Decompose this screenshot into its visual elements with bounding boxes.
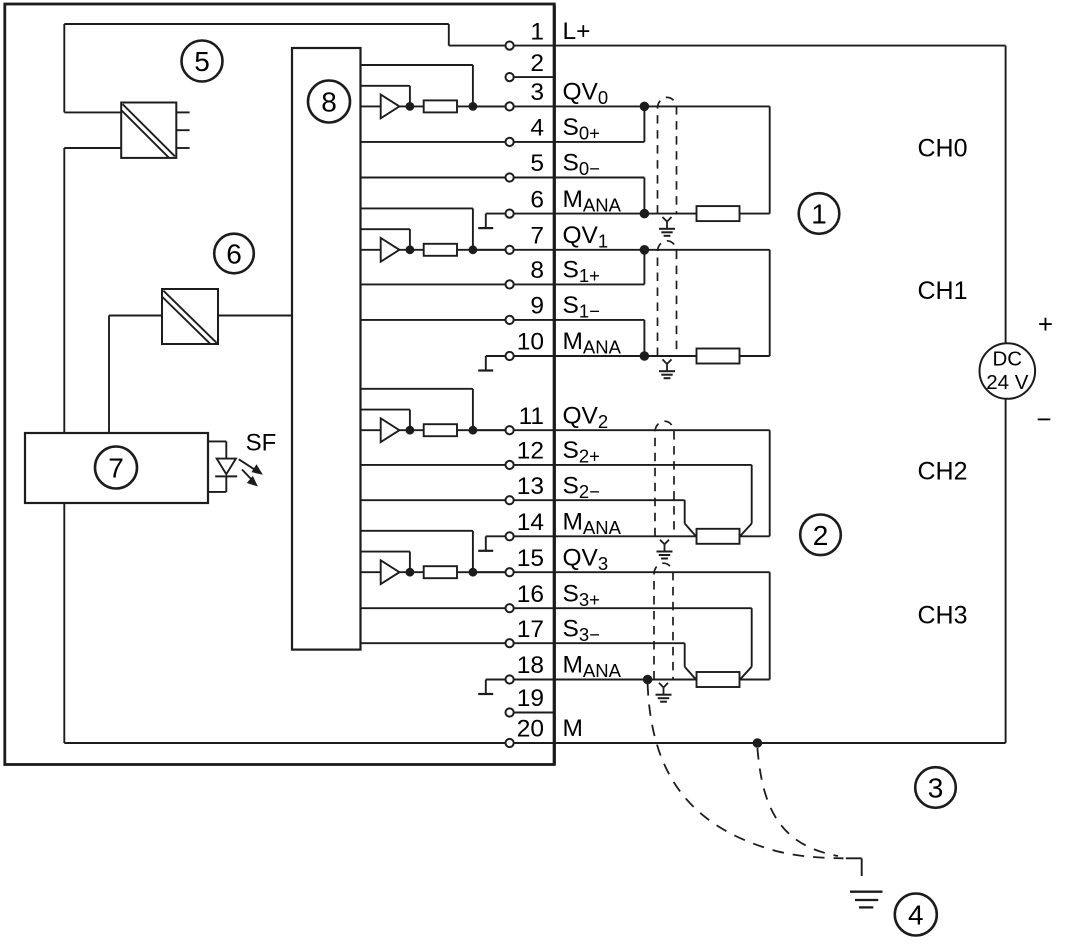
wire op-amp A2 output <box>399 429 423 431</box>
svg-text:6: 6 <box>226 239 242 270</box>
svg-text:5: 5 <box>530 150 544 177</box>
svg-text:DC: DC <box>992 348 1022 371</box>
pin 15 wire <box>473 571 554 573</box>
pin 14 wire <box>486 535 555 537</box>
circled 6 <box>214 234 254 274</box>
svg-text:−: − <box>1036 404 1051 434</box>
resistor R0 (output) <box>424 100 457 112</box>
wire supply + side <box>1005 46 1007 344</box>
svg-text:8: 8 <box>321 87 337 118</box>
node QV2 sense <box>469 426 478 435</box>
terminal circle pin 2 <box>506 73 514 81</box>
wire top rail down to PSU input <box>63 24 65 112</box>
feedback wire A2 <box>361 409 410 411</box>
svg-text:1: 1 <box>811 199 827 230</box>
pin 9 wire <box>361 319 555 321</box>
svg-text:13: 13 <box>517 473 544 500</box>
wire load right side CH0 <box>769 106 771 213</box>
wire down to controller box 7 <box>63 148 65 433</box>
svg-text:16: 16 <box>517 581 544 608</box>
resistor R3 (output) <box>424 566 457 578</box>
svg-text:8: 8 <box>530 257 544 284</box>
pin 17 wire <box>361 642 555 644</box>
cable shield CH2 (dashed) <box>655 421 674 536</box>
wire down to box 7 <box>108 316 110 434</box>
svg-text:12: 12 <box>517 438 544 465</box>
wire MANA to load CH1 <box>554 355 696 357</box>
supply DC 24 V <box>980 343 1036 399</box>
terminal circle pin 5 <box>506 173 514 181</box>
wire QV out CH3 <box>554 571 769 573</box>
load resistor CH0 <box>697 206 740 221</box>
load resistor CH1 <box>697 349 740 364</box>
cable shield CH1 (dashed) <box>658 241 677 356</box>
op-amp A3 (buffer) <box>381 560 400 584</box>
sense wire A3 <box>361 530 473 532</box>
wire S- sense CH2 <box>554 499 684 501</box>
node QV1 sense <box>469 245 478 254</box>
load resistor CH3 <box>697 672 740 687</box>
PSU output pin 2 <box>176 129 189 131</box>
ground tick pin 14 <box>485 536 487 551</box>
circled 3 <box>915 767 956 808</box>
node shield CH3 <box>643 675 653 685</box>
wire sense ext pin 8 <box>554 283 644 285</box>
wire S+ tie CH1 <box>643 250 645 285</box>
wire load to right side CH1 <box>740 355 770 357</box>
circled 7 <box>95 447 137 489</box>
node S+ tie CH1 <box>640 245 650 255</box>
node M rail <box>753 738 763 748</box>
wire S- tie CH1 <box>643 320 645 356</box>
LED diode D1 (SF) <box>217 459 236 475</box>
node amp3 output <box>406 568 415 577</box>
cable shield CH0 (dashed) <box>658 97 677 213</box>
shield earth CH2 <box>660 540 665 545</box>
wire MANA to load CH2 <box>554 535 696 537</box>
svg-text:2: 2 <box>530 50 544 77</box>
terminal circle pin 4 <box>506 138 514 146</box>
svg-text:9: 9 <box>530 293 544 320</box>
terminal circle pin 3 <box>506 102 514 110</box>
svg-text:L+: L+ <box>563 18 591 45</box>
svg-text:4: 4 <box>908 900 924 931</box>
svg-text:15: 15 <box>517 545 544 572</box>
terminal circle pin 14 <box>506 532 514 540</box>
op-amp A0 input wire <box>361 105 381 107</box>
pin 1 wire <box>449 45 555 47</box>
node amp1 output <box>406 245 415 254</box>
feedback wire A0 <box>361 85 410 87</box>
wire L+ top rail <box>64 23 449 25</box>
LED light arrow 1 <box>239 459 257 470</box>
feedback wire A3 <box>361 551 410 553</box>
terminal circle pin 13 <box>506 496 514 504</box>
op-amp A2 (buffer) <box>381 418 400 442</box>
terminal circle pin 6 <box>506 210 514 218</box>
terminal circle pin 7 <box>506 246 514 254</box>
node QV0 sense <box>469 102 478 111</box>
pin 2 wire <box>510 76 555 78</box>
node S+ tie CH0 <box>640 102 650 112</box>
wire S+ sense CH3 <box>554 607 751 609</box>
circled 8 <box>308 81 350 123</box>
svg-text:14: 14 <box>517 509 544 536</box>
terminal circle pin 12 <box>506 461 514 469</box>
wire sense ext pin 5 <box>554 177 644 179</box>
sense wire A2 <box>361 388 473 390</box>
resistor R2 (output) <box>424 424 457 436</box>
pin 4 wire <box>361 141 555 143</box>
LED anode lead <box>208 440 226 442</box>
pin 3 wire <box>473 105 554 107</box>
terminal circle pin 10 <box>506 352 514 360</box>
op-amp A2 input wire <box>361 429 381 431</box>
svg-text:5: 5 <box>194 46 210 77</box>
pin 7 wire <box>473 249 554 251</box>
svg-text:7: 7 <box>530 223 544 250</box>
wire load to right side CH0 <box>740 213 770 215</box>
shield earth CH1 <box>663 359 668 364</box>
wire MANA to load CH0 <box>554 213 696 215</box>
circled 2 <box>800 515 841 556</box>
wire supply - side <box>1005 399 1007 743</box>
wire right side to load CH2 <box>740 535 770 537</box>
svg-text:CH1: CH1 <box>918 277 968 305</box>
svg-text:19: 19 <box>517 685 544 712</box>
svg-text:24 V: 24 V <box>986 371 1028 394</box>
node S- tie CH1 <box>640 351 650 361</box>
node S- tie CH0 <box>640 209 650 219</box>
terminal circle pin 1 <box>506 42 514 50</box>
pin 16 wire <box>361 607 555 609</box>
terminal circle pin 20 <box>506 739 514 747</box>
wire MANA to load CH3 <box>554 679 696 681</box>
svg-text:4: 4 <box>530 115 544 142</box>
wire QV out CH1 <box>554 249 769 251</box>
terminal circle pin 17 <box>506 639 514 647</box>
wire QV out CH2 <box>554 429 769 431</box>
wire op-amp A3 output <box>399 571 423 573</box>
op-amp A0 (buffer) <box>381 95 400 119</box>
svg-text:CH0: CH0 <box>918 135 968 163</box>
wire L+ to supply <box>554 45 1005 47</box>
ground (4) lead <box>846 857 862 859</box>
svg-text:20: 20 <box>517 716 544 743</box>
power supply box (5) <box>121 103 176 158</box>
pin 5 wire <box>361 177 555 179</box>
terminal circle pin 18 <box>506 675 514 683</box>
svg-text:M: M <box>563 715 583 742</box>
svg-text:3: 3 <box>530 79 544 106</box>
svg-text:7: 7 <box>108 453 124 484</box>
isolation barrier box (6) <box>162 289 218 344</box>
wire S- tie CH0 <box>643 178 645 214</box>
load resistor CH2 <box>697 529 740 544</box>
wire QV out CH0 <box>554 105 769 107</box>
terminal circle pin 16 <box>506 604 514 612</box>
dashed bonding wire from CH3 shield <box>648 684 844 858</box>
wire resistor R3 to terminal <box>457 571 510 573</box>
pin 20 wire <box>64 742 1005 744</box>
circled 4 <box>895 894 937 936</box>
svg-text:18: 18 <box>517 652 544 679</box>
circled 1 <box>799 193 840 234</box>
wire resistor R2 to terminal <box>457 429 510 431</box>
svg-text:1: 1 <box>530 18 544 45</box>
terminal circle pin 11 <box>506 426 514 434</box>
svg-text:+: + <box>1038 309 1053 339</box>
wire top rail down to pin 1 <box>448 24 450 46</box>
output driver block (8) <box>292 48 361 650</box>
cable shield CH3 (dashed) <box>654 563 673 679</box>
pin 6 wire <box>486 213 555 215</box>
wire S+ sense CH2 <box>554 464 751 466</box>
wire load right side CH3 <box>769 572 771 679</box>
svg-text:SF: SF <box>246 430 277 457</box>
LED light arrow 2 <box>242 470 253 481</box>
ground tick pin 10 <box>485 356 487 371</box>
controller box (7) <box>25 433 208 503</box>
ground (4) symbol <box>850 891 883 893</box>
pin 19 wire <box>510 712 555 714</box>
pin 12 wire <box>361 464 555 466</box>
wire resistor R0 to terminal <box>457 105 510 107</box>
pin 18 wire <box>486 679 555 681</box>
wire load right side CH2 <box>769 430 771 536</box>
terminal circle pin 15 <box>506 568 514 576</box>
node QV3 sense <box>469 568 478 577</box>
svg-text:2: 2 <box>813 520 829 551</box>
node amp2 output <box>406 426 415 435</box>
PSU output pin 1 <box>176 111 189 113</box>
wire S+ tie CH0 <box>643 106 645 141</box>
svg-text:3: 3 <box>928 773 944 804</box>
resistor R1 (output) <box>424 244 457 256</box>
pin 11 wire <box>473 429 554 431</box>
terminal strip line <box>553 5 556 765</box>
terminal circle pin 8 <box>506 280 514 288</box>
svg-text:CH2: CH2 <box>918 457 968 485</box>
LED cathode lead <box>225 476 227 492</box>
terminal circle pin 19 <box>506 708 514 716</box>
node amp0 output <box>406 102 415 111</box>
wire box6 right lead to block 8 <box>218 315 292 317</box>
dashed bonding wire from M rail <box>757 748 838 856</box>
PSU output pin 3 <box>176 147 189 149</box>
svg-text:6: 6 <box>530 186 544 213</box>
terminal circle pin 9 <box>506 316 514 324</box>
wire resistor R1 to terminal <box>457 249 510 251</box>
op-amp A1 (buffer) <box>381 238 400 262</box>
circled 5 <box>182 41 223 82</box>
sense wire A1 <box>361 207 473 209</box>
op-amp A1 input wire <box>361 249 381 251</box>
ground tick pin 18 <box>485 680 487 695</box>
svg-text:10: 10 <box>517 329 544 356</box>
pin 13 wire <box>361 499 555 501</box>
wire sense ext pin 4 <box>554 141 644 143</box>
svg-text:17: 17 <box>517 616 544 643</box>
feedback wire A1 <box>361 228 410 230</box>
wire sense ext pin 9 <box>554 319 644 321</box>
wire op-amp A1 output <box>399 249 423 251</box>
shield earth CH3 <box>659 683 664 688</box>
shield earth CH0 <box>663 217 668 222</box>
module outline box <box>5 4 555 765</box>
op-amp A3 input wire <box>361 571 381 573</box>
wire into PSU box <box>64 111 121 113</box>
wire box6 left lead <box>109 315 162 317</box>
wire box7 to M rail <box>63 503 65 743</box>
wire PSU lower terminal <box>64 147 121 149</box>
wire op-amp A0 output <box>399 105 423 107</box>
pin 10 wire <box>486 355 555 357</box>
wire right side to load CH3 <box>740 679 770 681</box>
ground tick pin 6 <box>485 214 487 229</box>
wire load right side CH1 <box>769 250 771 356</box>
svg-text:11: 11 <box>519 403 544 430</box>
wire S- sense CH3 <box>554 642 684 644</box>
sense wire A0 <box>361 64 473 66</box>
pin 8 wire <box>361 283 555 285</box>
svg-text:CH3: CH3 <box>918 601 968 629</box>
